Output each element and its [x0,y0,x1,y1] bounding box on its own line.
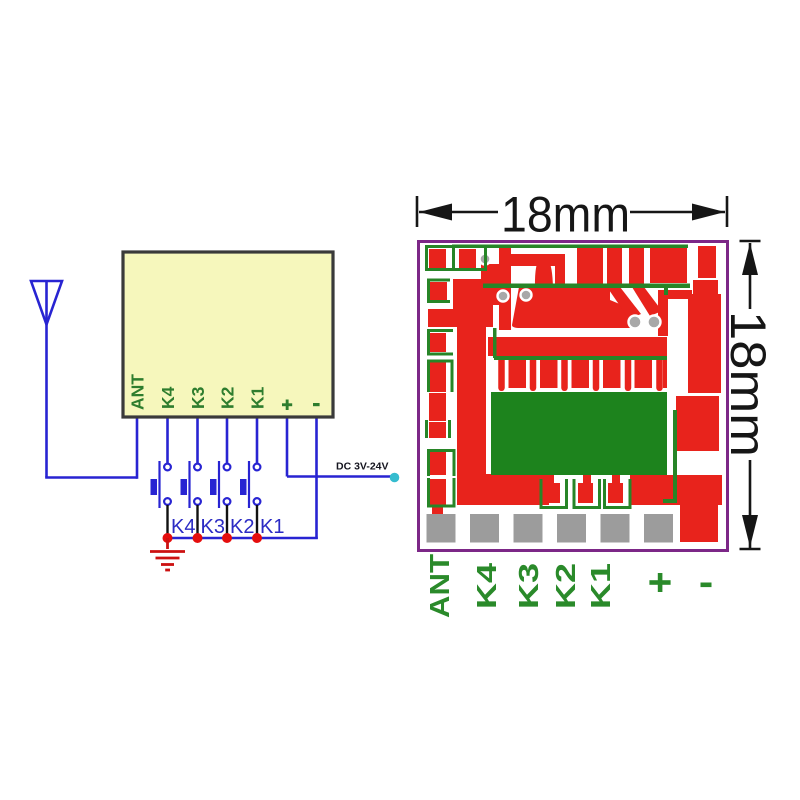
svg-text:K1: K1 [248,386,268,409]
svg-text:K2: K2 [230,516,254,538]
svg-text:ANT: ANT [424,554,455,618]
svg-text:18mm: 18mm [501,187,630,243]
svg-text:K1: K1 [260,516,284,538]
svg-text:DC 3V-24V: DC 3V-24V [336,461,389,473]
svg-text:K3: K3 [201,516,225,538]
svg-text:K4: K4 [158,386,178,409]
svg-text:18mm: 18mm [720,311,776,457]
svg-text:K3: K3 [513,563,544,609]
svg-text:K2: K2 [218,386,238,409]
svg-text:K1: K1 [585,563,616,609]
svg-text:K4: K4 [471,562,502,609]
svg-text:ANT: ANT [128,374,148,410]
svg-text:K2: K2 [550,563,581,609]
svg-text:K4: K4 [171,516,195,538]
svg-text:K3: K3 [188,386,208,409]
